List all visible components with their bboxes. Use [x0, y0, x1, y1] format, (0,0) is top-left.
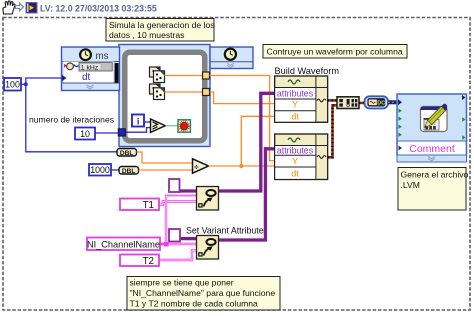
wire: junction up to dt input — [26, 78, 62, 84]
svg-text:.LVM: .LVM — [401, 180, 420, 190]
svg-text:T1: T1 — [143, 200, 154, 211]
variant wire: SVA1 out to BW1 attributes — [219, 93, 275, 191]
svg-text:DBL: DBL — [120, 150, 134, 157]
variant wire: rect1 to SVA1 — [180, 189, 197, 192]
svg-text:1 kHz: 1 kHz — [81, 64, 99, 71]
svg-text:attributes: attributes — [277, 89, 314, 99]
wire: dice2 to tunnel2 — [165, 91, 203, 93]
svg-text:DBL: DBL — [122, 168, 136, 175]
coercion DBL label 2 — [119, 167, 139, 176]
svg-text:DC: DC — [377, 100, 385, 106]
svg-text:10: 10 — [80, 129, 90, 139]
svg-text:datos , 10 muestras: datos , 10 muestras — [109, 30, 184, 40]
comment: Contruye un waveform por columna — [263, 45, 407, 59]
wire: tunnel 10 to comparison — [125, 128, 151, 133]
build array node — [337, 97, 359, 109]
svg-text:Comment: Comment — [409, 143, 455, 155]
wire: comparison to stop terminal — [165, 125, 178, 127]
toolbar arrow icon — [16, 3, 24, 11]
variant wire: SVA2 out to BW2 attributes — [219, 149, 275, 240]
convert to dynamic data node — [365, 96, 389, 108]
svg-text:dt: dt — [291, 169, 299, 179]
numeric constant 1000 — [89, 164, 111, 176]
svg-text:Contruye un waveform por colum: Contruye un waveform por columna — [267, 46, 403, 56]
svg-text:numero de iteraciones: numero de iteraciones — [29, 114, 114, 124]
svg-text:Y: Y — [292, 100, 298, 110]
variant constant 1 — [169, 179, 180, 192]
wire: DBL1 to divide x input — [137, 152, 193, 163]
1 kHz dropdown — [79, 63, 112, 72]
expand chevron footer — [397, 155, 467, 162]
Build Waveform node 1 — [275, 76, 328, 122]
Set Variant Attribute node 1 — [197, 187, 219, 211]
Build Waveform node 2 — [275, 134, 328, 180]
loop tunnel 1 (dice1 out) — [203, 72, 210, 79]
svg-text:÷: ÷ — [194, 162, 199, 172]
Set Variant Attribute node 2 — [197, 236, 219, 260]
coercion DBL label 1 — [117, 149, 137, 158]
string wire: T2 to SVA2 value — [159, 250, 197, 260]
svg-text:i: i — [137, 115, 140, 126]
loop tunnel for 10 (left) — [118, 129, 125, 136]
scrollbar black bar — [115, 63, 119, 83]
waveform wire: build array to convert — [359, 102, 365, 105]
while loop — [125, 52, 205, 141]
loop condition stop terminal — [178, 120, 190, 132]
wire: divide out to junction and BW2 dt — [209, 164, 275, 168]
toolbar LabVIEW icon — [26, 3, 37, 14]
numeric constant 10 — [75, 128, 95, 140]
wire: tunnel1 to BW2 Y input — [210, 76, 275, 161]
svg-text:Y: Y — [292, 157, 298, 167]
label: Build Waveform — [275, 66, 340, 76]
label: numero de iteraciones — [29, 114, 114, 124]
Write To Measurement File express VI (Comment) — [397, 94, 467, 162]
svg-text:Simula la generacion de los: Simula la generacion de los — [109, 20, 215, 30]
svg-text:Genera el archivo: Genera el archivo — [401, 170, 469, 180]
Wait (ms) express VI node U2 (top right) — [210, 47, 253, 69]
label: Set Variant Attribute — [186, 226, 264, 236]
wire: i to comparison — [144, 121, 151, 123]
waveform wire: BW2 out to build array — [328, 105, 337, 157]
comparison greater-or-equal node — [151, 119, 166, 132]
dice random number generator 2 — [150, 84, 165, 100]
variant wire: rect2 to SVA2 — [180, 237, 197, 240]
svg-text:"NI_ChannelName" para que func: "NI_ChannelName" para que funcione — [130, 288, 276, 298]
wire: junction up to BW1 dt — [241, 116, 274, 166]
numeric constant 100 — [4, 78, 21, 91]
clock icon ms — [80, 49, 91, 60]
svg-text:siempre se tiene que poner: siempre se tiene que poner — [130, 278, 234, 288]
svg-text:LV: 12.0 27/03/2013 03:23:55: LV: 12.0 27/03/2013 03:23:55 — [40, 3, 157, 13]
svg-text:attributes: attributes — [277, 146, 314, 156]
comment: Genera el archivo .LVM — [398, 168, 469, 211]
iteration terminal i — [132, 115, 144, 127]
dt input terminal arrow — [62, 75, 67, 81]
svg-text:100: 100 — [5, 80, 20, 90]
variant constant 2 — [169, 229, 180, 242]
toolbar hand tool icon — [3, 1, 15, 14]
wire: 100 to junction — [21, 82, 28, 86]
string constant NI_ChannelName — [87, 238, 160, 251]
Wait (ms) express VI node U1 — [62, 47, 120, 91]
wire: tunnel2 to BW1 Y input — [210, 92, 275, 104]
string constant T2 — [120, 255, 159, 268]
small counter clock icon — [67, 63, 74, 70]
toolbar title text — [40, 3, 157, 13]
svg-text:dt: dt — [291, 111, 299, 121]
svg-text:T1 y T2 nombre de cada columna: T1 y T2 nombre de cada columna — [130, 299, 259, 309]
svg-text:T2: T2 — [143, 256, 154, 267]
express VI frame behind while loop — [119, 45, 210, 147]
divide node — [193, 159, 209, 173]
wire: 10 to loop tunnel — [95, 132, 119, 134]
string wire: NI_ChannelName vertical + name inputs — [160, 196, 197, 247]
dynamic data wire: convert to write file — [388, 100, 397, 104]
svg-text:NI_ChannelName: NI_ChannelName — [87, 239, 160, 249]
string constant T1 — [120, 199, 159, 212]
comment: siempre se tiene que poner... — [127, 277, 280, 311]
wire: junction down to DBL conversion — [26, 84, 117, 152]
waveform wire: BW1 out to build array — [328, 99, 337, 102]
svg-text:1000: 1000 — [90, 165, 110, 175]
svg-text:Set Variant Attribute: Set Variant Attribute — [186, 226, 264, 236]
loop tunnel 2 (dice2 out) — [203, 89, 210, 96]
dice random number generator 1 — [150, 67, 165, 83]
svg-text:dt: dt — [82, 72, 91, 83]
wire: dice1 to tunnel1 — [165, 75, 203, 77]
icon — [421, 107, 448, 132]
comment: Simula la generacion de los datos , 10 muestras — [106, 19, 215, 42]
svg-text:Build Waveform: Build Waveform — [275, 66, 340, 76]
string wire: T1 to SVA1 value — [159, 202, 197, 205]
svg-text:ms: ms — [96, 51, 109, 62]
wire: DBL2 to divide y input — [139, 169, 193, 171]
expand chevron — [87, 85, 94, 89]
terminals left — [398, 99, 402, 105]
terminals right — [462, 95, 466, 100]
wire: 1000 to DBL conversion — [111, 169, 119, 171]
